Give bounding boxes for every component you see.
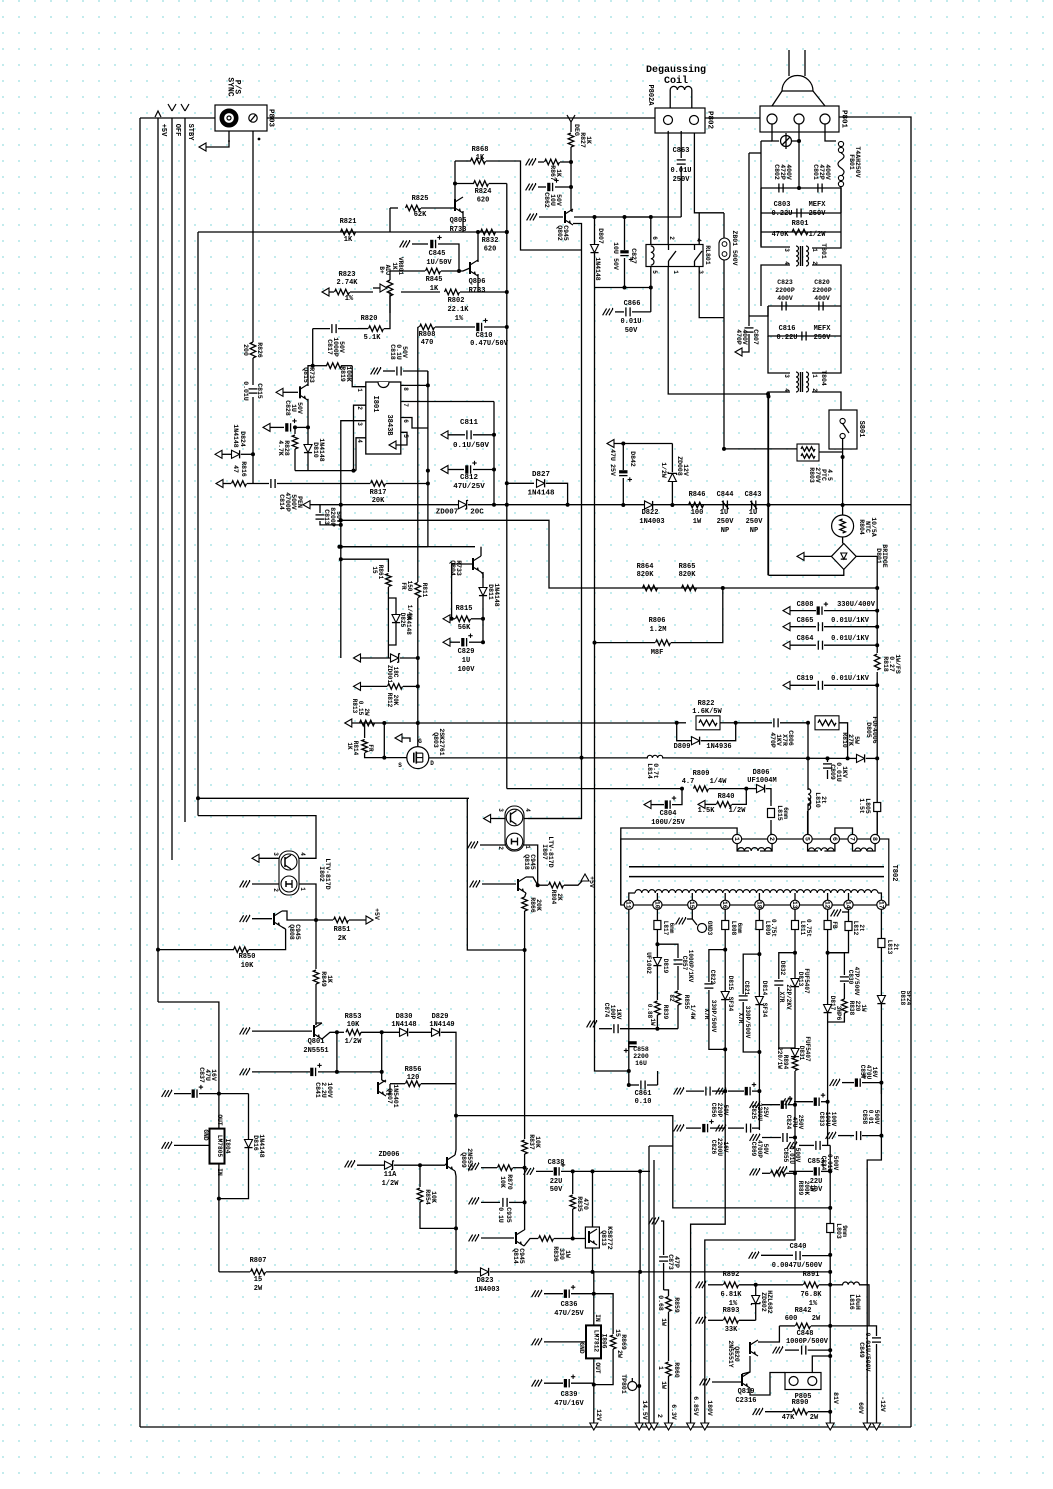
svg-text:C816: C816 [779, 325, 796, 333]
svg-text:2: 2 [497, 846, 504, 850]
capacitor C873 47P [655, 1218, 659, 1225]
svg-text:12V: 12V [682, 464, 689, 476]
svg-text:R806: R806 [649, 617, 666, 625]
svg-text:600: 600 [785, 1315, 798, 1323]
svg-text:100K: 100K [345, 366, 352, 382]
svg-text:D822: D822 [642, 509, 659, 517]
svg-text:D829: D829 [432, 1013, 449, 1021]
svg-text:500V: 500V [794, 1148, 801, 1163]
resistor R827 1K [570, 122, 572, 132]
svg-text:16V: 16V [871, 1067, 878, 1078]
svg-text:0.01U/1KV: 0.01U/1KV [831, 635, 870, 643]
svg-text:LM7812: LM7812 [593, 1330, 600, 1353]
svg-text:D816: D816 [252, 1135, 259, 1151]
svg-text:5: 5 [804, 837, 811, 841]
svg-text:C819: C819 [797, 675, 814, 683]
opto isolator I802 LTV-817D [279, 851, 299, 895]
svg-text:1: 1 [524, 845, 531, 849]
T802 secondary windings [635, 890, 878, 893]
resistor R828 4.7K [294, 427, 296, 434]
svg-text:C858: C858 [861, 1110, 868, 1125]
inductor L809 0.75t [756, 921, 763, 930]
svg-text:50V: 50V [722, 1105, 729, 1116]
svg-text:0.01U/1KV: 0.01U/1KV [831, 675, 870, 683]
svg-text:R856: R856 [405, 1066, 422, 1074]
svg-text:16U: 16U [635, 1060, 647, 1067]
svg-text:4: 4 [783, 261, 790, 265]
svg-text:2.74K: 2.74K [336, 279, 358, 287]
svg-text:C807: C807 [752, 329, 759, 345]
svg-text:12: 12 [824, 901, 831, 909]
svg-text:6.85V: 6.85V [692, 1396, 699, 1416]
svg-text:SYNC: SYNC [225, 77, 234, 96]
capacitor C840 0.0047U/500V [755, 1252, 759, 1259]
svg-text:0.15: 0.15 [357, 701, 364, 716]
svg-text:2200P: 2200P [812, 287, 832, 294]
resistor R869 15 2W [594, 1294, 613, 1334]
diode D809 1N4936 [677, 723, 691, 741]
svg-text:9mm: 9mm [841, 1225, 848, 1237]
svg-text:0.68: 0.68 [657, 1295, 664, 1311]
svg-text:250V: 250V [717, 518, 735, 526]
svg-text:R845: R845 [426, 276, 443, 284]
svg-text:22U: 22U [810, 1178, 823, 1186]
T802 pin5 [803, 834, 812, 843]
svg-text:Q819: Q819 [738, 1388, 755, 1396]
diode D831 FUF5407 [779, 1042, 795, 1048]
svg-text:R819: R819 [339, 366, 346, 382]
svg-text:5: 5 [651, 270, 658, 274]
svg-text:1N4148: 1N4148 [258, 1134, 265, 1158]
inductor L805 1.5t [874, 803, 881, 812]
svg-text:R853: R853 [345, 1013, 362, 1021]
svg-text:56K: 56K [458, 624, 471, 632]
capacitor C874 100P 1KV [593, 1021, 597, 1028]
capacitor C863 0.01U 250V [680, 131, 682, 158]
LM7805 gnd pin [168, 1142, 172, 1149]
svg-text:Q803: Q803 [432, 732, 439, 748]
svg-text:C848: C848 [797, 1330, 814, 1338]
capacitor C836 47U/25V [538, 1290, 542, 1297]
svg-text:14.5V: 14.5V [641, 1400, 648, 1420]
svg-text:22.1K: 22.1K [447, 306, 469, 314]
svg-text:1%: 1% [345, 295, 354, 303]
node 12V output arrow [590, 1423, 598, 1430]
svg-text:PEN: PEN [296, 496, 303, 508]
svg-text:Q806: Q806 [469, 278, 486, 286]
svg-text:1K: 1K [344, 236, 353, 244]
svg-text:FB01: FB01 [848, 154, 855, 170]
svg-text:R733: R733 [469, 287, 486, 295]
svg-text:FUF5407: FUF5407 [804, 1036, 811, 1062]
svg-text:47U/16V: 47U/16V [554, 1400, 584, 1408]
inductor L816 10uH [830, 1284, 843, 1286]
svg-text:4700P: 4700P [756, 1140, 763, 1158]
capacitor C813 8200P 50V [319, 505, 321, 513]
svg-text:620: 620 [484, 246, 497, 254]
capacitor C859 0.01 500V [832, 1132, 836, 1139]
svg-text:C841: C841 [314, 1082, 321, 1098]
inductor L812 2t [845, 922, 852, 931]
svg-text:R869: R869 [620, 1334, 627, 1350]
svg-text:R837: R837 [528, 1134, 535, 1150]
svg-text:L816: L816 [848, 1294, 855, 1310]
capacitor C826 2200U 16V [680, 1125, 684, 1132]
T802 pin1 [733, 834, 742, 843]
transistor Q806 R733 [469, 262, 471, 274]
T802 pin6 [830, 834, 839, 843]
wire pin13 down [794, 909, 796, 920]
svg-text:47U: 47U [204, 1069, 211, 1081]
svg-text:1U: 1U [290, 404, 297, 412]
transistor Q815 R733 [276, 388, 283, 396]
svg-text:1N4003: 1N4003 [639, 518, 664, 526]
svg-text:250V: 250V [797, 1115, 804, 1130]
svg-text:50V: 50V [555, 194, 562, 206]
svg-text:1U/50V: 1U/50V [426, 259, 452, 267]
svg-text:1KV: 1KV [615, 1009, 622, 1020]
svg-text:1KV: 1KV [775, 734, 782, 746]
diode D815 SF34 [721, 992, 729, 1000]
diode D814 SF34 [755, 997, 763, 1005]
svg-text:C829: C829 [458, 648, 475, 656]
svg-text:R850: R850 [239, 953, 256, 961]
capacitor C803 0.22U MEFX 250V [761, 212, 841, 214]
svg-text:100V: 100V [458, 666, 476, 674]
diode D822 1N4003 [645, 501, 653, 509]
svg-text:KS8772: KS8772 [606, 1226, 613, 1250]
IC I804 LM7805 [210, 1129, 225, 1164]
inductor L815 6mm [768, 809, 775, 818]
resistor R807 15 2W [219, 1271, 250, 1273]
svg-text:47U: 47U [791, 1117, 798, 1128]
zener ZD001 18C [354, 654, 361, 662]
svg-text:C837: C837 [198, 1067, 205, 1083]
svg-text:R870: R870 [506, 1174, 513, 1190]
IC I806 LM7812 [593, 1272, 595, 1326]
IC801 pin1 [352, 366, 366, 387]
svg-text:1: 1 [733, 837, 740, 841]
svg-text:820K: 820K [679, 571, 697, 579]
svg-text:R810: R810 [841, 732, 848, 748]
capacitor C807 470P 400V [748, 316, 750, 326]
svg-text:1/2W: 1/2W [809, 231, 827, 239]
T802 pin2 [768, 834, 777, 843]
svg-text:1: 1 [657, 1366, 664, 1370]
svg-text:C808: C808 [797, 601, 814, 609]
wire I802 pin1 down [299, 884, 316, 920]
capacitor C869 4700P 50V [722, 1125, 726, 1132]
capacitor C855 0.01U 500V [756, 1134, 760, 1141]
svg-text:17: 17 [877, 901, 884, 909]
svg-text:D832: D832 [779, 961, 786, 976]
capacitor C935 0.1U [475, 1198, 479, 1205]
capacitor C848 1000P/500V [779, 1347, 783, 1354]
wire R821 net to opto row [198, 797, 469, 799]
inductor L811 0.75t [792, 921, 799, 930]
potentiometer VR801 B+ ADJ 1K [387, 280, 393, 296]
svg-text:5W: 5W [853, 736, 860, 744]
svg-text:NP: NP [750, 527, 758, 535]
svg-text:C840: C840 [790, 1243, 807, 1251]
diode D813 FUF5407 [791, 979, 799, 987]
svg-text:22U: 22U [550, 1178, 563, 1186]
svg-text:P802: P802 [706, 111, 714, 130]
svg-text:1/4W: 1/4W [406, 605, 413, 620]
T802 pin13 [790, 900, 799, 909]
T802 pin14 [844, 900, 853, 909]
svg-text:C873: C873 [667, 1254, 674, 1270]
resistor R866 20K [522, 897, 528, 911]
zener ZD008 12V 1/2W [671, 482, 673, 505]
resistor R846 100 1W [689, 502, 704, 508]
svg-text:2200: 2200 [633, 1053, 649, 1060]
svg-text:1: 1 [811, 248, 818, 252]
svg-text:D806: D806 [753, 769, 770, 777]
resistor R854 10K [419, 1165, 421, 1187]
svg-text:Q814: Q814 [512, 1248, 519, 1264]
svg-text:2K: 2K [338, 935, 347, 943]
svg-text:C809: C809 [829, 764, 836, 780]
wire schematic frame left [139, 118, 141, 1427]
svg-text:R889: R889 [797, 1181, 804, 1196]
svg-text:R733: R733 [455, 560, 462, 576]
capacitor C862 10U 50V [532, 184, 536, 191]
resistor R845 1K [401, 270, 425, 272]
svg-text:+5V: +5V [373, 908, 380, 920]
resistor R849 1K [315, 920, 317, 969]
svg-text:1.5t: 1.5t [858, 798, 865, 814]
resistor R809 4.7 1/4W [680, 787, 684, 791]
svg-text:10/5A: 10/5A [870, 517, 877, 537]
resistor R838 220 1W [842, 999, 848, 1013]
svg-text:5: 5 [402, 434, 409, 438]
capacitor C858 2200 16V [628, 1041, 636, 1044]
svg-text:1W: 1W [693, 518, 702, 526]
capacitor C802 472P 400V [761, 187, 841, 189]
wire bus +5V corner to C837 [158, 1002, 219, 1094]
svg-text:2t: 2t [858, 924, 865, 932]
IC801 pin4 [356, 438, 366, 471]
svg-text:47: 47 [232, 465, 239, 473]
svg-text:C2316: C2316 [735, 1397, 756, 1405]
transistor Q819 C2316 [741, 1374, 743, 1386]
resistor R864 820K [341, 520, 877, 588]
svg-text:C810: C810 [476, 332, 493, 340]
inductor L817 6mm [654, 921, 661, 930]
wire drain row [429, 757, 648, 759]
wire Q815 emitter to C828 node [307, 399, 309, 428]
svg-text:1K: 1K [346, 742, 353, 750]
svg-text:250V: 250V [746, 518, 764, 526]
capacitor C812 47U/25V [441, 466, 448, 474]
wire B+ rail to T802 pin8 [876, 811, 878, 835]
resistor R859 0.68 1W [664, 1290, 669, 1296]
svg-text:BRIDGE: BRIDGE [881, 544, 888, 568]
svg-text:X7R: X7R [778, 992, 785, 1003]
svg-text:1N4148: 1N4148 [318, 438, 325, 462]
svg-text:1W: 1W [660, 1381, 667, 1389]
resistor R837 10K [522, 1140, 528, 1154]
svg-text:20C: 20C [470, 509, 484, 517]
capacitor C839 47U/16V [538, 1380, 542, 1387]
svg-text:10K: 10K [347, 1021, 360, 1029]
svg-text:0.75t: 0.75t [805, 919, 812, 937]
resistor R889 200K 1W [756, 1169, 760, 1176]
svg-text:400V: 400V [814, 295, 830, 302]
capacitor C865 0.01U/1KV [783, 623, 790, 631]
resistor R821 1K [341, 229, 356, 235]
resistor R803 270V PTC 4.5 thermistor [797, 444, 819, 461]
transistor Q803 2SK2761 MOSFET [407, 747, 429, 769]
svg-text:0.7t: 0.7t [652, 763, 659, 779]
svg-text:47K: 47K [782, 1414, 795, 1422]
svg-text:10K: 10K [241, 962, 254, 970]
svg-text:R842: R842 [795, 1307, 812, 1315]
svg-text:C849: C849 [858, 1342, 865, 1358]
svg-text:R846: R846 [689, 491, 706, 499]
svg-text:1000P: 1000P [332, 337, 339, 357]
svg-text:T4AH250V: T4AH250V [854, 146, 861, 177]
resistor R810 27K 5W [806, 721, 810, 725]
svg-text:L810: L810 [814, 792, 821, 808]
svg-text:D811: D811 [487, 584, 494, 600]
resistor R832 620 [481, 229, 496, 235]
svg-text:7: 7 [402, 403, 409, 407]
resistor R836 330 1W [539, 1236, 554, 1242]
svg-text:C945: C945 [529, 854, 536, 870]
T802 pin16 [721, 900, 730, 909]
svg-text:1: 1 [672, 270, 679, 274]
diode D805 FUF4006 [848, 757, 856, 759]
svg-text:R818: R818 [882, 656, 889, 672]
svg-text:C818: C818 [389, 344, 396, 360]
wire Q809 collector row [456, 1116, 673, 1202]
resistor R894 220/1W [792, 1058, 798, 1071]
svg-text:220P: 220P [716, 1103, 723, 1118]
svg-text:C866: C866 [624, 300, 641, 308]
capacitor C814 4700P 500V PEN [270, 479, 272, 488]
svg-text:GND3: GND3 [706, 921, 713, 936]
resistor R893 33K [702, 1317, 706, 1324]
resistor R819 100K [313, 365, 327, 367]
svg-text:D842: D842 [629, 451, 636, 467]
wire main gate row [345, 722, 677, 724]
node +5V bus [157, 118, 159, 1002]
svg-text:3: 3 [497, 808, 504, 812]
capacitor C811 0.1U/50V [441, 431, 448, 439]
svg-text:7: 7 [848, 837, 855, 841]
T802 primary winding 7-8 [855, 848, 873, 851]
inductor L808 6mm [722, 921, 729, 930]
capacitor C853 22U 50V [783, 1167, 787, 1174]
svg-text:1: 1 [811, 374, 818, 378]
IC IC801 3843B [366, 382, 401, 454]
svg-text:FR: FR [400, 582, 407, 590]
wire degauss line [667, 131, 669, 245]
wire pin10 down [656, 909, 658, 920]
diode D810 1N4148 [307, 427, 309, 444]
inductor L814 0.7t [507, 788, 682, 790]
wire P803 pin2 down [252, 131, 254, 342]
svg-text:P802A: P802A [646, 84, 654, 106]
svg-text:C804: C804 [660, 810, 677, 818]
wire pin15 ground [691, 909, 693, 919]
svg-text:10U: 10U [549, 194, 556, 206]
svg-text:C861: C861 [635, 1090, 652, 1098]
wire pin7 net [493, 402, 495, 505]
transformer T804 [768, 336, 790, 373]
svg-text:2: 2 [356, 406, 363, 410]
svg-text:470P: 470P [769, 732, 776, 748]
svg-text:4.7K: 4.7K [277, 440, 284, 456]
svg-text:FR: FR [367, 744, 374, 752]
svg-text:RL801: RL801 [704, 245, 711, 265]
svg-text:C821: C821 [743, 981, 750, 996]
svg-text:C864: C864 [797, 635, 814, 643]
svg-text:16V: 16V [210, 1069, 217, 1081]
wire secondary return row [673, 1202, 830, 1208]
capacitor C866 0.01U 50V [632, 311, 651, 313]
svg-text:C806: C806 [787, 730, 794, 746]
svg-text:6.3V: 6.3V [670, 1404, 677, 1420]
svg-text:C845: C845 [429, 250, 446, 258]
svg-text:3: 3 [697, 270, 704, 274]
thermistor R804 NTC 10/5A [842, 505, 844, 515]
svg-text:1000P/500V: 1000P/500V [786, 1338, 829, 1346]
svg-text:ZD001: ZD001 [386, 665, 393, 683]
capacitor C820 2200P 400V [818, 302, 820, 311]
svg-text:10uH: 10uH [854, 1294, 861, 1310]
svg-text:15: 15 [254, 1276, 262, 1284]
IC801 pin8 [401, 371, 428, 385]
resistor R806 1.2M M8F [595, 642, 656, 644]
svg-text:L814: L814 [646, 763, 653, 779]
svg-text:50V: 50V [762, 1144, 769, 1155]
capacitor C857 470U 16V [836, 1079, 840, 1086]
resistor R839 0.88 1W [655, 1001, 661, 1015]
IC801 pin2 [354, 405, 366, 470]
svg-text:2: 2 [768, 837, 775, 841]
svg-text:200: 200 [242, 344, 249, 356]
T802 pin15 [688, 900, 697, 909]
svg-text:DEG: DEG [573, 124, 580, 136]
wire x640 vertical [639, 1171, 641, 1272]
svg-text:6: 6 [402, 419, 409, 423]
transistor Q807 1N5401 [381, 1072, 383, 1080]
svg-text:400V: 400V [741, 329, 748, 345]
svg-text:X7R: X7R [703, 1009, 710, 1020]
resistor R865 820K [682, 585, 697, 591]
svg-text:I801: I801 [371, 396, 379, 413]
resistor R804 2K to +5V [538, 884, 548, 886]
resistor R856 120 [390, 1083, 405, 1085]
svg-text:13: 13 [791, 901, 798, 909]
svg-text:C945: C945 [562, 225, 569, 241]
svg-text:D831: D831 [798, 1046, 805, 1061]
svg-text:1N4936: 1N4936 [706, 743, 731, 751]
resistor R835 470 [572, 1171, 574, 1194]
svg-text:25V: 25V [609, 464, 616, 476]
svg-text:2t: 2t [892, 943, 899, 951]
capacitor C808 330U/400V [783, 607, 790, 615]
svg-text:3: 3 [272, 852, 279, 856]
svg-text:R813: R813 [351, 699, 358, 714]
svg-text:R807: R807 [250, 1257, 267, 1265]
svg-text:R816: R816 [240, 461, 247, 477]
svg-text:0.01U: 0.01U [788, 1146, 795, 1164]
svg-text:C945: C945 [518, 1248, 525, 1264]
